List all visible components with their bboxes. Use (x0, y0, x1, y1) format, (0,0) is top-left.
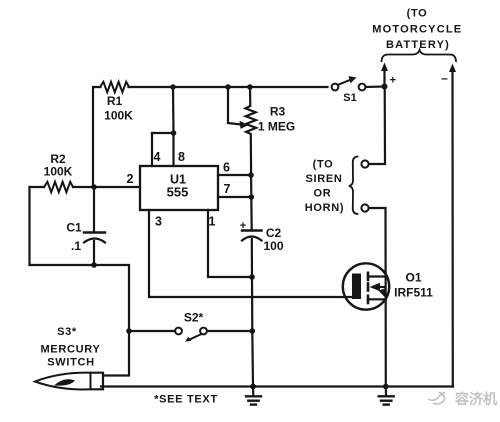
svg-text:S3*: S3* (57, 326, 77, 338)
svg-text:*SEE TEXT: *SEE TEXT (154, 393, 218, 405)
node ground 1 (250, 384, 256, 390)
wire pin4 drop (151, 133, 153, 166)
wire R3 to pin7 node (250, 175, 252, 197)
wire pin6 (218, 174, 251, 176)
capacitor C1 bottom lead (93, 241, 95, 265)
node battery plus (382, 84, 388, 90)
wire battery minus line (451, 70, 453, 387)
svg-text:+: + (240, 220, 246, 232)
svg-text:HORN): HORN) (305, 202, 345, 214)
wire left loop (30, 187, 95, 265)
wire pin8 drop (172, 87, 175, 166)
svg-text:100: 100 (263, 239, 283, 253)
svg-text:MERCURY: MERCURY (40, 343, 100, 355)
wire S2 left lead (129, 330, 175, 332)
node pin7 (249, 194, 255, 200)
svg-text:1 MEG: 1 MEG (258, 120, 295, 134)
svg-text:MOTORCYCLE: MOTORCYCLE (372, 23, 462, 35)
svg-text:SWITCH: SWITCH (47, 357, 95, 369)
svg-text:BATTERY): BATTERY) (386, 39, 450, 51)
svg-text:7: 7 (224, 182, 231, 196)
svg-text:4: 4 (154, 150, 161, 164)
capacitor C1 top lead (93, 187, 95, 233)
capacitor C2 top lead (250, 197, 253, 231)
node R2/C1 junction (91, 184, 97, 190)
node top-rail/wiper (225, 84, 231, 90)
svg-text:容济机: 容济机 (454, 391, 497, 407)
svg-text:.1: .1 (71, 239, 81, 253)
wire R2 to pin2 (73, 186, 140, 188)
svg-text:C1: C1 (66, 221, 82, 235)
node top-rail/R3 (247, 84, 253, 90)
node pin1/C2 (249, 274, 255, 280)
switch S2 arm (189, 334, 201, 340)
battery minus arrowhead (449, 64, 456, 73)
wire pin7 (218, 196, 251, 198)
switch S2 right contact (200, 328, 207, 335)
capacitor C2 plates (242, 229, 262, 231)
svg-text:R3: R3 (270, 105, 286, 119)
svg-text:+: + (390, 75, 396, 87)
switch S1 left contact (332, 84, 339, 91)
wire S2 right lead (208, 330, 253, 332)
mercury blob (54, 379, 75, 385)
svg-text:100K: 100K (44, 165, 73, 179)
battery brace (382, 50, 457, 61)
wire R3 wiper branch (228, 87, 242, 125)
switch S2 left contact (175, 328, 182, 335)
svg-text:O1: O1 (405, 271, 421, 285)
wire top rail (93, 87, 101, 187)
wire pin2 (30, 186, 45, 188)
wire pin3 to gate (149, 210, 352, 297)
resistor R2 (44, 182, 73, 192)
wiper arrowhead (240, 121, 249, 129)
svg-text:555: 555 (167, 184, 189, 199)
svg-text:OR: OR (314, 187, 332, 199)
switch S1 arm (338, 80, 351, 85)
transistor Q1 body stub (367, 284, 370, 291)
transistor Q1 body-source arrow (379, 289, 387, 300)
capacitor C2 bottom lead (252, 239, 253, 387)
wire pin4 link (152, 132, 174, 134)
transistor Q1 circle (343, 263, 389, 309)
wire siren bottom to drain (369, 208, 386, 387)
wire S1 to battery node (366, 85, 385, 88)
svg-text:S2*: S2* (184, 311, 204, 325)
wire pin1 elbow (208, 210, 252, 277)
ground 1 (252, 387, 255, 396)
svg-text:R1: R1 (107, 94, 123, 108)
wire plus node down to siren top (369, 87, 385, 165)
ground 2 (385, 387, 387, 396)
svg-text:C2: C2 (266, 226, 282, 240)
op-amp U1 555 box (140, 166, 218, 210)
watermark text (454, 391, 497, 407)
transistor Q1 drain stub (367, 273, 370, 280)
svg-text:6: 6 (223, 161, 230, 175)
node pin6 (248, 172, 254, 178)
svg-text:(TO: (TO (407, 8, 428, 20)
node S2 left (126, 328, 132, 334)
svg-text:3: 3 (155, 214, 162, 228)
mercury switch S3 body (35, 373, 91, 390)
svg-text:SIREN: SIREN (305, 173, 342, 185)
svg-text:2: 2 (127, 172, 134, 186)
transistor Q1 source stub (367, 296, 370, 303)
wire bottom rail (101, 385, 453, 387)
svg-text:100K: 100K (104, 109, 133, 123)
svg-text:(TO: (TO (313, 159, 334, 171)
node top-rail/pin8 (170, 84, 176, 90)
siren brace (349, 157, 358, 215)
svg-text:8: 8 (178, 150, 185, 164)
node C1 bottom (91, 262, 97, 268)
node pin4/pin8 tee (171, 130, 177, 136)
capacitor C1 plates (84, 231, 105, 233)
transistor Q1 gate bar (352, 274, 361, 300)
battery plus arrowhead (381, 63, 388, 72)
siren bottom terminal (361, 204, 368, 211)
svg-text:–: – (441, 71, 448, 85)
wire C1 node to S2 branch (94, 265, 129, 376)
node ground 2 (383, 384, 389, 390)
node S2 right (250, 328, 256, 334)
svg-text:1: 1 (209, 214, 216, 228)
svg-text:S1: S1 (343, 92, 356, 104)
wire battery plus arrow shaft (383, 69, 385, 87)
siren top terminal (361, 160, 368, 167)
switch S1 right contact (359, 84, 366, 91)
resistor R3 (246, 87, 257, 175)
svg-text:IRF511: IRF511 (394, 286, 433, 300)
resistor R1 (100, 82, 129, 92)
watermark logo (428, 392, 445, 404)
